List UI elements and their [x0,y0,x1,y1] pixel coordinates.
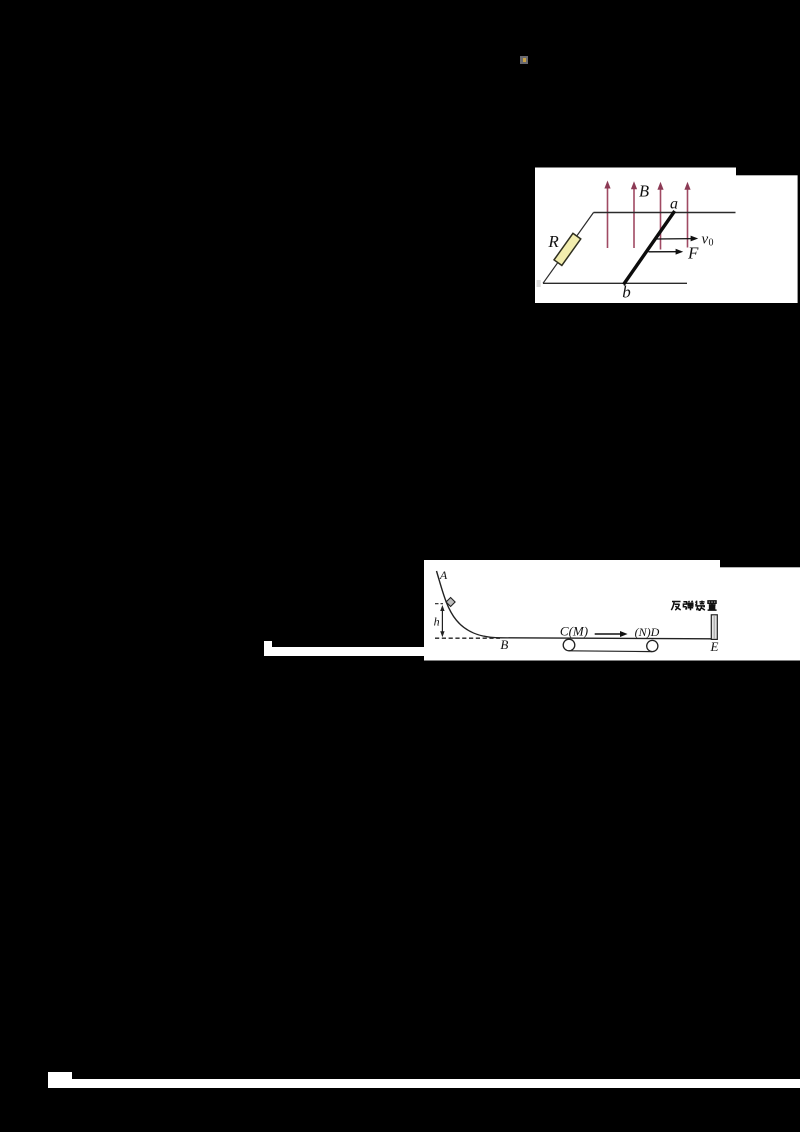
svg-text:A: A [439,568,448,582]
white panel background (with black notch at top-right) [535,168,736,177]
h double arrow [441,608,443,635]
gray artifact square bottom-left [537,280,541,287]
top rail [594,212,736,214]
反 [671,602,680,611]
svg-text:(N)D: (N)D [635,625,660,639]
velocity arrow v0 [655,238,693,240]
small image-placeholder icon top center [520,56,528,64]
svg-text:B: B [639,182,649,201]
rod ab (thick) [624,211,675,285]
force arrow F [649,251,679,253]
belt bottom line [569,650,652,653]
dashed baseline [435,637,500,639]
bottom white strip [72,1079,800,1088]
置 [708,601,717,610]
magnetic field arrow 2 [633,187,635,249]
direction arrow on belt [595,633,623,635]
svg-text:h: h [434,615,440,629]
bottom-left white block [48,1072,73,1088]
main track line B to E [501,638,711,639]
bottom rail [543,282,687,284]
svg-text:F: F [687,244,699,263]
弹 [683,601,693,611]
resistor R (yellow) [554,233,581,265]
svg-text:a: a [670,196,678,213]
label 反弹装置 (drawn strokes) [671,601,716,611]
mid-page white strip (left of figure 2) [264,641,271,656]
figure 2: ramp + conveyor + rebound device (white panel) [424,560,800,661]
svg-text:0: 0 [709,238,714,249]
white panel background (with black notch at top-right) [424,560,720,568]
svg-text:B: B [500,637,508,652]
top tick dash for h [435,603,443,605]
svg-text:C(M): C(M) [560,623,588,638]
figure 1: rod-on-rails with magnetic field (white panel) [535,167,800,303]
svg-text:b: b [622,283,631,302]
sliding block on ramp [446,597,455,606]
rebound device bar [711,615,717,640]
svg-text:v: v [702,232,709,248]
svg-text:E: E [710,639,719,654]
装 [695,601,705,611]
svg-text:R: R [547,232,559,251]
conveyor wheel 2 [647,640,658,651]
magnetic field arrow 1 [604,181,690,250]
magnetic field arrow 3 [660,187,662,250]
left slanted wire [543,213,594,284]
conveyor wheel 1 [563,639,575,651]
ramp curve A to B [437,571,502,638]
magnetic field arrow 4 [687,187,689,248]
